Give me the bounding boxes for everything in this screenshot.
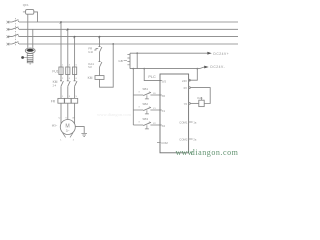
svg-text:Y0: Y0 (184, 102, 188, 106)
node junction (196, 68, 198, 70)
svg-text:SB2: SB2 (142, 102, 148, 106)
svg-text:5: 5 (76, 96, 78, 98)
fuse FU1 a (59, 67, 63, 75)
wire link to minus line (136, 53, 138, 68)
svg-text:6: 6 (76, 78, 78, 80)
contact KM main b (67, 81, 70, 86)
wire phase A tap (60, 22, 62, 67)
node junction (143, 68, 145, 70)
coil KA1 (199, 100, 204, 106)
wire buttons rail (132, 69, 134, 125)
wire QF1 down to device (27, 14, 29, 48)
svg-text:M3~: M3~ (52, 124, 58, 128)
svg-text:COM1: COM1 (179, 120, 188, 124)
PLC box (160, 74, 189, 153)
svg-text:5-8: 5-8 (88, 66, 92, 69)
button SB3 (133, 124, 162, 126)
ground PE symbol (81, 133, 87, 136)
wire rail3 y=36.6 (8, 36, 238, 38)
svg-text:KM: KM (53, 80, 58, 84)
svg-text:1: 1 (60, 140, 62, 142)
wire 24V- line (130, 67, 204, 69)
contact FR NC (99, 47, 102, 52)
svg-text:FR: FR (51, 100, 56, 104)
svg-text:KA1: KA1 (88, 62, 94, 66)
svg-text:X0: X0 (162, 94, 166, 98)
node lamp dot (21, 56, 24, 59)
svg-text:1: 1 (62, 65, 64, 67)
wire FR to motor (61, 103, 75, 124)
wire motor PE (75, 127, 84, 134)
switch QS pole 2 (12, 27, 18, 29)
coil KM (95, 76, 104, 80)
contact KA1 NO (99, 62, 102, 67)
wire rail1 y=22 (8, 21, 238, 23)
svg-text:1: 1 (62, 96, 64, 98)
svg-text:2: 2 (62, 78, 64, 80)
wire output loop COM0 (190, 88, 210, 104)
svg-text:QF1: QF1 (23, 3, 29, 7)
svg-text:2a: 2a (193, 137, 196, 141)
relay FR heater b (65, 98, 71, 103)
motor frame diagonals (63, 133, 73, 138)
svg-text:X0: X0 (153, 93, 156, 95)
switch QS pole 3 (12, 34, 18, 36)
svg-text:5: 5 (76, 65, 78, 67)
motor M circle (60, 120, 75, 135)
svg-text:3: 3 (138, 107, 140, 109)
svg-text:2-4: 2-4 (53, 85, 57, 88)
wire KM to FR (61, 86, 75, 98)
node junction buttons rail (132, 68, 134, 70)
node L2 terminal arrow (7, 28, 10, 31)
wire coil to rail4 (100, 44, 114, 87)
svg-text:DC24V+: DC24V+ (213, 52, 229, 56)
svg-text:DC24V-: DC24V- (210, 65, 225, 69)
contact KM main c (74, 81, 77, 86)
pin circle 0V (189, 87, 191, 89)
svg-text:2: 2 (73, 140, 75, 142)
wire fuse to KM contacts (61, 75, 75, 81)
node L3 terminal arrow (7, 35, 10, 38)
wire (99, 67, 101, 76)
wire device second feed from rail2 (32, 29, 34, 48)
button SB2 (133, 109, 162, 111)
power supply bar GB (129, 53, 131, 68)
node junction (136, 52, 138, 54)
pin circle Y0 (189, 103, 191, 105)
svg-text:SB3: SB3 (142, 117, 148, 121)
fuse FU1 c (73, 67, 77, 75)
wire 24V+ line (130, 52, 207, 54)
svg-text:1a: 1a (193, 120, 196, 124)
device bell dark band (27, 49, 34, 52)
svg-text:COM2: COM2 (179, 137, 188, 141)
svg-text:3: 3 (69, 65, 71, 67)
switch QS linkage dashed (15, 18, 17, 46)
device box stub (29, 63, 31, 65)
relay FR heater a (58, 98, 64, 103)
wire drop to S/S pin (144, 69, 162, 81)
svg-text:KM: KM (88, 76, 93, 80)
relay FR heater c (71, 98, 77, 103)
svg-text:0V: 0V (184, 86, 188, 90)
switch QS pole 1 (12, 20, 18, 22)
device meter box (27, 54, 33, 63)
svg-text:www.diangon.com: www.diangon.com (97, 112, 131, 117)
node N terminal arrow (7, 43, 10, 46)
wire 24V- to sensor pin (189, 69, 198, 81)
svg-text:GB: GB (118, 59, 122, 63)
fuse QF1 body (26, 10, 34, 15)
svg-text:3~: 3~ (66, 129, 70, 133)
svg-text:KA1: KA1 (197, 96, 203, 100)
svg-text:U: U (59, 118, 61, 120)
svg-text:3: 3 (138, 122, 140, 124)
svg-text:X2: X2 (162, 124, 166, 128)
svg-text:FU1: FU1 (52, 70, 58, 74)
svg-text:24V: 24V (182, 79, 187, 83)
svg-text:3: 3 (138, 92, 140, 94)
button SB1 (133, 94, 162, 96)
svg-text:X1: X1 (153, 108, 156, 110)
wire COM stub (157, 142, 161, 144)
arrow 24V+ (207, 52, 212, 55)
contact KM main a (60, 81, 63, 86)
wire rail2 y=29 (8, 28, 238, 30)
svg-text:PLC: PLC (148, 75, 156, 79)
pin circle 24V (189, 79, 191, 81)
device bell outline (25, 48, 35, 53)
wire phase B tap (67, 29, 69, 67)
svg-text:FR: FR (88, 46, 93, 50)
pin stub COM1 (189, 121, 193, 123)
svg-text:X1: X1 (162, 109, 166, 113)
svg-text:X2: X2 (153, 123, 156, 125)
svg-text:diangon.com: diangon.com (191, 148, 239, 157)
pin stub COM2 (189, 138, 193, 140)
svg-text:4: 4 (69, 78, 71, 80)
wire phase C tap (74, 37, 76, 67)
wire QF1 to rail1 (34, 12, 38, 22)
node L1 terminal arrow (7, 21, 10, 24)
svg-text:S/S: S/S (162, 79, 167, 83)
svg-text:COM: COM (161, 141, 168, 145)
wire (99, 52, 101, 62)
wire rail4 y=44 (8, 43, 238, 45)
fuse FU1 b (66, 67, 70, 75)
wire control tap from rail3 (99, 37, 101, 47)
svg-text:3: 3 (69, 96, 71, 98)
svg-text:9-10: 9-10 (88, 51, 93, 54)
arrow 24V- (204, 66, 209, 69)
svg-text:SB1: SB1 (142, 87, 148, 91)
switch QS pole 4 (12, 42, 18, 44)
wire output Y0 to coil (190, 102, 199, 104)
